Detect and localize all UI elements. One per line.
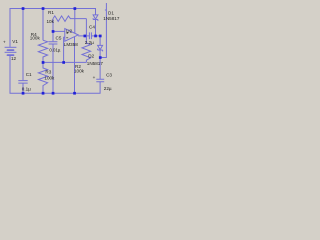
node op-amp output (84, 35, 87, 38)
node D2 anode (99, 35, 102, 38)
node top rail / V+ (74, 7, 77, 10)
node ground C5 (52, 92, 55, 95)
resistor R4 (38, 40, 47, 62)
resistor R1 (53, 16, 86, 22)
node ground C1 (22, 92, 25, 95)
svg-text:C3: C3 (106, 73, 112, 78)
svg-text:C5: C5 (56, 36, 62, 41)
op-amp U2 triangle (65, 29, 78, 42)
svg-text:10k: 10k (47, 19, 55, 24)
svg-text:+: + (93, 75, 96, 80)
battery V1 plate short bottom (8, 54, 14, 56)
op-amp input polarity marks (66, 32, 68, 38)
svg-text:2.2µ: 2.2µ (85, 40, 94, 45)
battery V1 plate long top (5, 46, 17, 48)
battery V1 plate long bottom (5, 51, 17, 53)
wire stub at right branch top (105, 9, 107, 11)
battery V1 plate short top (8, 49, 14, 51)
resistor R3 (38, 62, 47, 93)
wire C1 column upper (22, 9, 24, 81)
wire top rail (10, 9, 96, 47)
svg-text:R3: R3 (45, 69, 51, 74)
labels (3, 10, 120, 92)
wire C5 bottom lead (52, 44, 54, 93)
node inverting input (52, 30, 55, 33)
wire noninverting node horizontal (43, 61, 86, 63)
capacitor C1 (18, 81, 27, 84)
op-amp minus mark lower input (66, 37, 68, 39)
svg-text:22µ: 22µ (104, 86, 112, 91)
wire output branch to right (100, 3, 106, 58)
node top rail / R4 (42, 7, 45, 10)
svg-text:+: + (3, 40, 6, 45)
wire D2 node down to C3 (99, 58, 101, 80)
node D1 cathode (94, 35, 97, 38)
wire op-amp output (78, 35, 89, 37)
svg-text:12: 12 (11, 56, 17, 61)
svg-text:D2: D2 (88, 54, 94, 59)
wire bottom rail (10, 56, 100, 93)
background (0, 0, 120, 100)
wire noninverting input lead (64, 37, 65, 62)
wire D2 anode lead (99, 36, 101, 46)
capacitor C4 (89, 32, 91, 39)
svg-text:R1: R1 (48, 10, 54, 15)
capacitor C5 (49, 42, 58, 44)
svg-text:1N5817: 1N5817 (103, 16, 120, 21)
node D2 cathode (99, 56, 102, 59)
svg-text:C1: C1 (26, 72, 32, 77)
wire R1 left lead (52, 19, 54, 32)
wire op-amp V+ pin (74, 9, 76, 34)
svg-text:1N5817: 1N5817 (87, 61, 104, 66)
node top rail / C1 (22, 7, 25, 10)
wire D2 cathode lead (99, 50, 101, 58)
diode D1 (93, 15, 98, 21)
capacitor C3 (96, 79, 104, 82)
wire output node to D2 (91, 35, 100, 37)
node noninverting join (62, 61, 65, 64)
diode D2 (98, 45, 103, 51)
wire D1 cathode lead (95, 20, 97, 36)
wire inverting input (53, 30, 65, 32)
svg-text:100k: 100k (44, 75, 55, 80)
svg-text:100k: 100k (30, 35, 41, 40)
svg-text:0.01µ: 0.01µ (49, 47, 61, 52)
node ground V- (73, 92, 76, 95)
svg-text:C4: C4 (89, 25, 95, 30)
wire C5 top lead (52, 31, 54, 41)
wire op-amp V- pin (74, 37, 76, 93)
junction dots (22, 7, 102, 94)
wire R4 top lead (42, 9, 44, 41)
svg-text:D1: D1 (108, 11, 114, 16)
wire C1 column lower (22, 84, 24, 94)
svg-text:V1: V1 (12, 39, 18, 44)
resistor R2 (82, 36, 91, 63)
op-amp plus mark upper input (66, 32, 68, 34)
node ground R3 (42, 92, 45, 95)
svg-text:100k: 100k (74, 68, 85, 73)
svg-text:LM358: LM358 (64, 42, 78, 47)
wire R1 to output node (85, 19, 87, 36)
node divider mid (42, 61, 45, 64)
svg-text:0.1µ: 0.1µ (22, 87, 31, 92)
